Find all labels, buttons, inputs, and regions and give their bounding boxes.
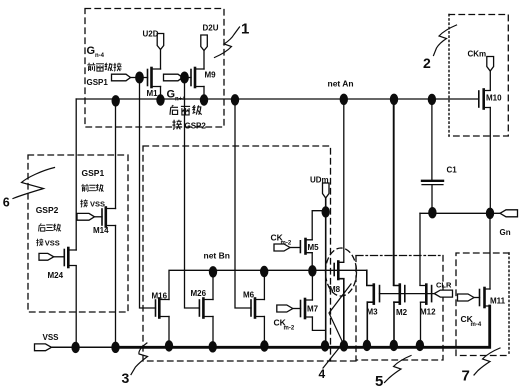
svg-text:VSS: VSS	[45, 238, 60, 247]
wire Gn output line	[420, 212, 500, 214]
wire U2D lead	[160, 49, 162, 69]
wire net Bn horizontal	[169, 270, 367, 299]
transistor M12	[420, 285, 432, 304]
wire M16 source to VSS	[168, 317, 170, 347]
wire M14 source to VSS	[115, 226, 117, 348]
svg-text:M14: M14	[93, 226, 109, 235]
svg-text:M3: M3	[367, 308, 379, 317]
svg-text:m-2: m-2	[284, 326, 295, 332]
wire VSS rail	[52, 306, 490, 347]
label 前两级接	[87, 63, 121, 71]
wire M3 drain from net Bn	[366, 270, 368, 285]
input flag CK m-4	[458, 294, 475, 301]
wire M7 source join	[312, 317, 325, 330]
transistor M6	[251, 299, 264, 318]
transistor M8	[334, 262, 338, 280]
svg-text:M16: M16	[152, 292, 168, 301]
svg-text:5: 5	[375, 373, 383, 390]
svg-text:net An: net An	[328, 79, 354, 89]
wire D2U lead	[203, 50, 205, 70]
input flag CK m-2 upper	[274, 244, 290, 251]
label 后两级	[170, 105, 202, 115]
svg-text:VSS: VSS	[43, 333, 60, 342]
wire M8 drain from net An	[338, 99, 344, 262]
callout squiggle 2	[434, 25, 457, 56]
wire M1 source	[160, 87, 162, 100]
svg-text:4: 4	[319, 367, 326, 381]
wire GSP1 to M16 gate	[140, 78, 156, 309]
svg-text:M26: M26	[191, 289, 207, 298]
wire M24 source to VSS	[75, 266, 77, 347]
svg-text:M6: M6	[243, 291, 255, 300]
wire M2 source to VSS	[393, 302, 395, 345]
callout squiggle 3	[131, 343, 148, 375]
dashed box 7	[456, 253, 509, 356]
transistor M5	[290, 239, 312, 254]
dashed box 1	[85, 9, 224, 128]
wire M6 drain	[263, 270, 265, 299]
label 接VSS box6 lower	[36, 238, 60, 247]
input flag UDm	[323, 183, 330, 198]
svg-text:M10: M10	[486, 94, 502, 103]
wire M14 drain line	[115, 99, 117, 209]
svg-text:2: 2	[423, 55, 431, 71]
wire M3 source to VSS	[366, 302, 368, 345]
svg-text:M7: M7	[307, 305, 319, 314]
wire M7 drain to net Bn	[311, 271, 313, 300]
capacitor C1	[422, 181, 443, 185]
wire M12 drain from Gn line	[419, 213, 421, 285]
wire M9 source	[203, 87, 205, 100]
svg-text:VSS: VSS	[90, 199, 105, 208]
callout squiggle 6	[13, 168, 55, 199]
svg-text:m-4: m-4	[471, 322, 482, 328]
wire VSS flag lead	[52, 346, 76, 348]
input flag GSP1	[112, 74, 140, 81]
transistor M7	[293, 299, 313, 318]
wire M6 gate line	[235, 99, 251, 308]
wire UDm flag down to VSS	[325, 198, 327, 346]
svg-text:M8: M8	[329, 285, 341, 294]
input flag U2D	[157, 34, 164, 50]
wire M12 source to VSS	[420, 302, 422, 345]
svg-text:U2D: U2D	[143, 30, 159, 39]
callout squiggle 5	[385, 356, 412, 383]
label 后三级	[39, 224, 61, 232]
svg-text:Gn: Gn	[500, 228, 511, 237]
svg-text:GSP1: GSP1	[82, 168, 105, 178]
svg-text:C1: C1	[447, 166, 458, 175]
input flag VSS	[35, 344, 52, 351]
svg-text:M12: M12	[420, 308, 436, 317]
callout squiggle 7	[474, 348, 500, 375]
svg-text:D2U: D2U	[203, 24, 219, 33]
svg-text:CKm: CKm	[468, 50, 487, 59]
dashed ellipse box 4	[326, 248, 357, 296]
svg-text:M9: M9	[205, 71, 217, 80]
transistor M10	[479, 90, 491, 109]
svg-text:1: 1	[241, 21, 249, 38]
svg-text:GSP1: GSP1	[87, 78, 109, 87]
svg-text:M1: M1	[147, 89, 159, 98]
svg-text:GSP2: GSP2	[185, 122, 207, 131]
label 前三级	[81, 184, 103, 192]
svg-text:n-4: n-4	[95, 53, 105, 59]
svg-text:m-2: m-2	[281, 241, 292, 247]
svg-text:M2: M2	[396, 308, 408, 317]
wire UDm node to M5 drain	[312, 211, 326, 240]
svg-text:6: 6	[3, 196, 10, 210]
input flag CKm	[487, 57, 494, 72]
transistor M16	[156, 299, 170, 318]
input flag M14 gate	[77, 213, 95, 220]
wire M24 drain line	[75, 99, 77, 250]
svg-text:CLR: CLR	[436, 281, 452, 290]
callout line 4	[323, 284, 351, 368]
svg-text:GSP2: GSP2	[36, 205, 59, 215]
wire net An horizontal	[76, 98, 479, 100]
dashed box 3	[143, 146, 356, 361]
input flag D2U	[201, 35, 208, 51]
wire M26 drain	[212, 270, 214, 299]
wire C1 top	[431, 99, 433, 180]
wire M6 source to VSS	[263, 317, 265, 347]
svg-text:7: 7	[462, 368, 470, 385]
dashed box 2	[449, 15, 508, 137]
input flag M24 gate	[39, 253, 54, 260]
transistor M2	[394, 285, 405, 304]
transistor M9	[185, 68, 205, 87]
transistor M1	[140, 68, 161, 87]
label 接VSS box6 upper	[80, 199, 105, 208]
svg-text:M11: M11	[490, 297, 506, 306]
transistor M26	[199, 299, 213, 318]
dashed box 6	[28, 155, 128, 312]
wire M11 drain to Gn line	[489, 213, 491, 289]
wire M8 source to VSS	[338, 279, 344, 346]
transistor M11	[474, 288, 490, 307]
svg-text:M5: M5	[308, 243, 320, 252]
input flag CLR	[434, 290, 452, 297]
wire C1 bottom	[431, 185, 433, 213]
transistor M24	[54, 248, 76, 267]
dashed box 5	[356, 256, 443, 361]
output flag Gn	[500, 210, 518, 217]
svg-text:M24: M24	[48, 271, 64, 280]
input flag GSP2	[164, 74, 183, 81]
svg-text:G: G	[87, 45, 96, 57]
svg-text:net Bn: net Bn	[204, 251, 230, 261]
wire M2 drain from net An	[393, 99, 395, 285]
input flag CK m-2 lower	[277, 305, 293, 312]
wire gate line CLR	[380, 293, 435, 295]
label 接GSP2	[172, 120, 206, 131]
svg-text:3: 3	[122, 370, 130, 386]
transistor M14	[95, 208, 116, 227]
svg-text:UDm: UDm	[310, 176, 329, 185]
wire GSP2 to M26 gate	[185, 78, 200, 309]
callout squiggle 1	[215, 27, 240, 58]
wire M26 source to VSS	[212, 317, 214, 348]
wire M10 source to Gn line	[489, 108, 491, 214]
svg-text:n+4: n+4	[175, 97, 186, 103]
transistor M3	[367, 285, 380, 304]
wire M5 source to net Bn	[311, 253, 313, 271]
wire CKm flag to M10 drain	[489, 71, 491, 90]
svg-text:G: G	[167, 89, 176, 101]
